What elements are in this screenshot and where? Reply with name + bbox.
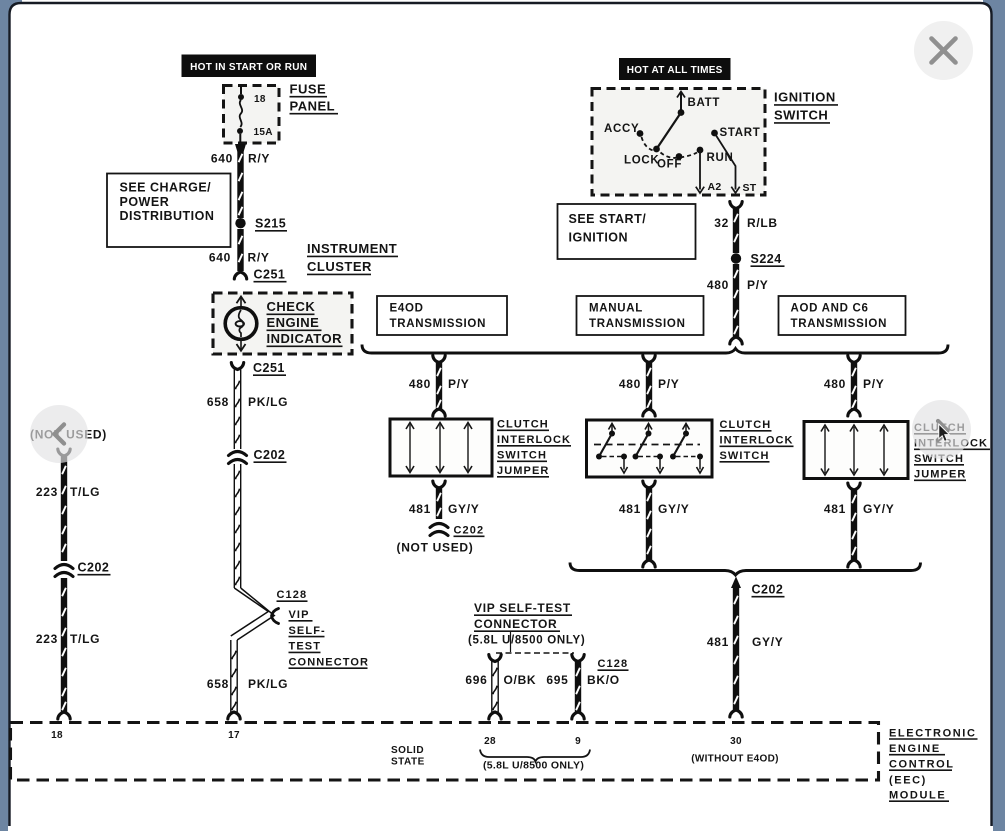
wire 481 GY/Y E4OD (not used) (433, 481, 445, 488)
svg-text:481: 481 (409, 502, 431, 516)
check engine lamp (240, 297, 242, 308)
clutch interlock switch jumper box E4OD (390, 419, 492, 476)
svg-text:BATT: BATT (688, 97, 721, 109)
svg-text:POWER: POWER (120, 195, 170, 209)
wire 480 P/Y drop MANUAL (643, 356, 655, 363)
svg-text:17: 17 (228, 730, 240, 741)
label HOT IN START OR RUN (182, 55, 317, 78)
svg-text:MANUAL: MANUAL (589, 303, 643, 315)
svg-text:480: 480 (824, 377, 846, 391)
svg-text:18: 18 (51, 730, 63, 741)
svg-text:DISTRIBUTION: DISTRIBUTION (120, 209, 215, 223)
close button (914, 21, 973, 80)
svg-text:C202: C202 (752, 583, 784, 597)
svg-text:PK/LG: PK/LG (248, 395, 288, 409)
svg-text:BK/O: BK/O (587, 673, 620, 687)
svg-text:LOCK: LOCK (624, 155, 659, 167)
svg-text:JUMPER: JUMPER (914, 469, 966, 481)
ignition START terminal (711, 130, 718, 137)
svg-text:CONNECTOR: CONNECTOR (474, 617, 557, 631)
svg-text:C251: C251 (254, 268, 286, 282)
svg-text:R/Y: R/Y (248, 251, 270, 265)
switch mechanism dashed link (594, 444, 700, 446)
svg-text:S224: S224 (751, 252, 782, 266)
svg-text:C202: C202 (454, 525, 485, 537)
svg-text:GY/Y: GY/Y (752, 635, 783, 649)
VIP self-test tap zigzag (231, 588, 268, 636)
svg-text:ST: ST (743, 182, 757, 194)
svg-text:R/Y: R/Y (248, 152, 270, 166)
wire 223 T/LG upper (61, 456, 67, 561)
svg-text:ENGINE: ENGINE (267, 315, 320, 330)
svg-text:640: 640 (209, 251, 231, 265)
svg-text:SWITCH: SWITCH (497, 450, 547, 462)
switch pole (683, 424, 690, 430)
svg-text:FUSE: FUSE (290, 82, 327, 97)
svg-text:IGNITION: IGNITION (774, 90, 836, 105)
wire 480 P/Y drop E4OD (433, 356, 445, 363)
svg-text:PK/LG: PK/LG (248, 677, 288, 691)
svg-text:SEE CHARGE/: SEE CHARGE/ (120, 181, 212, 195)
wire 658 PK/LG mid segment (233, 464, 235, 588)
clutch interlock switch jumper box AOD (804, 422, 908, 479)
svg-text:30: 30 (730, 736, 742, 747)
wire 658 PK/LG lower segment (230, 640, 232, 712)
svg-text:O/BK: O/BK (504, 673, 537, 687)
ignition switch dashed box (592, 89, 765, 196)
svg-text:A2: A2 (708, 181, 722, 193)
svg-text:(NOT USED): (NOT USED) (397, 541, 474, 555)
svg-text:SOLID: SOLID (391, 745, 424, 756)
fuse F18 15A (240, 86, 242, 94)
connector C128 on 658 wire (272, 609, 279, 624)
svg-text:658: 658 (207, 677, 229, 691)
svg-text:HOT IN START OR RUN: HOT IN START OR RUN (190, 62, 307, 73)
svg-text:695: 695 (546, 673, 568, 687)
check engine indicator dashed box (213, 293, 352, 354)
connector C251 lower (231, 363, 243, 370)
svg-text:28: 28 (484, 736, 496, 747)
svg-text:480: 480 (619, 377, 641, 391)
box MANUAL TRANSMISSION (577, 296, 704, 335)
svg-text:GY/Y: GY/Y (658, 502, 689, 516)
ignition BATT terminal (680, 93, 682, 113)
dashed detent arc ACCY to LOCK (642, 137, 654, 151)
svg-text:640: 640 (211, 152, 233, 166)
svg-text:R/LB: R/LB (747, 216, 778, 230)
wire 481 GY/Y AOD (848, 483, 860, 490)
svg-text:480: 480 (707, 278, 729, 292)
svg-text:CLUTCH: CLUTCH (497, 419, 549, 431)
ignition START to ST wire (715, 133, 736, 190)
wire 223 T/LG lower (61, 578, 67, 712)
svg-text:GY/Y: GY/Y (863, 502, 894, 516)
previous page button (30, 405, 88, 463)
svg-text:START: START (720, 127, 761, 139)
svg-text:STATE: STATE (391, 757, 425, 768)
svg-text:TRANSMISSION: TRANSMISSION (589, 318, 686, 330)
bus brace upper (362, 345, 948, 354)
wire 695 BK/O (572, 655, 584, 662)
svg-text:480: 480 (409, 377, 431, 391)
svg-text:696: 696 (465, 673, 487, 687)
connector C202 left branch (55, 565, 73, 569)
svg-text:TEST: TEST (289, 641, 322, 653)
svg-text:IGNITION: IGNITION (569, 231, 629, 245)
svg-text:CLUSTER: CLUSTER (307, 259, 372, 274)
wire 481 GY/Y MANUAL (643, 481, 655, 488)
splice S224 (731, 253, 741, 263)
svg-text:ENGINE: ENGINE (889, 743, 941, 755)
svg-text:T/LG: T/LG (70, 485, 100, 499)
svg-text:(5.8L U/8500 ONLY): (5.8L U/8500 ONLY) (468, 635, 585, 647)
svg-text:CLUTCH: CLUTCH (720, 419, 772, 431)
clutch interlock switch box MANUAL (587, 420, 713, 477)
223 wire top fork (58, 449, 70, 456)
label HOT AT ALL TIMES (619, 58, 731, 80)
svg-text:C251: C251 (253, 361, 285, 375)
bus brace lower (570, 563, 921, 576)
svg-text:C128: C128 (277, 589, 308, 601)
svg-text:CONTROL: CONTROL (889, 759, 955, 771)
svg-text:(5.8L U/8500 ONLY): (5.8L U/8500 ONLY) (483, 760, 584, 772)
EEC module dashed box (11, 723, 879, 781)
svg-text:C202: C202 (78, 561, 110, 575)
svg-text:JUMPER: JUMPER (497, 465, 549, 477)
svg-text:P/Y: P/Y (747, 278, 768, 292)
svg-text:PANEL: PANEL (290, 99, 336, 114)
ignition wiper lever (657, 113, 682, 150)
svg-text:481: 481 (707, 635, 729, 649)
switch pole (645, 424, 652, 430)
connector C202 on 658 wire (229, 452, 247, 456)
658 wire end fork at pin 17 (228, 712, 240, 719)
svg-text:SEE START/: SEE START/ (569, 212, 647, 226)
box E4OD TRANSMISSION (377, 296, 507, 335)
page backdrop left strip (0, 0, 22, 831)
svg-text:SWITCH: SWITCH (720, 450, 770, 462)
svg-text:CONNECTOR: CONNECTOR (289, 656, 370, 668)
svg-text:SELF-: SELF- (289, 625, 326, 637)
svg-text:VIP: VIP (289, 609, 310, 621)
svg-text:CHECK: CHECK (267, 299, 316, 314)
box SEE START/IGNITION (558, 204, 696, 259)
box AOD AND C6 TRANSMISSION (779, 296, 906, 335)
leader line to connector (510, 632, 512, 652)
ignition RUN terminal (697, 147, 704, 154)
ignition OFF terminal (676, 153, 683, 160)
splice S215 (235, 218, 245, 228)
svg-text:TRANSMISSION: TRANSMISSION (791, 318, 888, 330)
wire 640 R/Y fuse to C251 (235, 144, 246, 152)
junction arrow into C202 (731, 577, 741, 589)
svg-text:ELECTRONIC: ELECTRONIC (889, 727, 977, 739)
svg-text:ACCY: ACCY (604, 123, 639, 135)
svg-text:GY/Y: GY/Y (448, 502, 479, 516)
svg-text:9: 9 (575, 736, 581, 747)
svg-text:VIP SELF-TEST: VIP SELF-TEST (474, 601, 571, 615)
underbrace pins 28-9 (480, 750, 590, 762)
svg-text:481: 481 (619, 502, 641, 516)
wire 32 R/LB ignition to S224 (730, 202, 742, 209)
svg-text:AOD AND C6: AOD AND C6 (791, 303, 869, 315)
dashed detent arc LOCK-OFF-RUN (661, 153, 698, 158)
svg-text:S215: S215 (255, 217, 286, 231)
ignition ACCY terminal (637, 130, 644, 137)
next page button (912, 400, 971, 459)
wire 696 O/BK (489, 655, 501, 662)
svg-text:481: 481 (824, 502, 846, 516)
page backdrop right strip (983, 0, 1005, 831)
svg-text:INDICATOR: INDICATOR (267, 331, 343, 346)
223 wire end fork at pin 18 (58, 712, 70, 719)
svg-text:C202: C202 (254, 448, 286, 462)
connector C251 upper (234, 272, 246, 279)
mouse cursor (939, 424, 949, 441)
svg-text:18: 18 (254, 94, 266, 105)
svg-text:C128: C128 (598, 658, 629, 670)
svg-text:223: 223 (36, 485, 58, 499)
wire 480 P/Y drop AOD (848, 356, 860, 363)
box SEE CHARGE/POWER DISTRIBUTION (107, 174, 231, 248)
svg-text:(WITHOUT E4OD): (WITHOUT E4OD) (691, 754, 779, 765)
svg-text:(EEC): (EEC) (889, 775, 927, 787)
svg-text:223: 223 (36, 632, 58, 646)
svg-text:15A: 15A (254, 127, 273, 138)
svg-text:SWITCH: SWITCH (774, 108, 828, 123)
svg-text:MODULE: MODULE (889, 790, 946, 802)
svg-text:OFF: OFF (657, 159, 682, 171)
svg-text:P/Y: P/Y (448, 377, 469, 391)
switch pole (609, 424, 616, 430)
svg-text:HOT AT ALL TIMES: HOT AT ALL TIMES (627, 65, 723, 76)
fuse panel dashed box (224, 86, 280, 144)
connector dashed bar (496, 652, 574, 654)
svg-text:INTERLOCK: INTERLOCK (720, 435, 794, 447)
svg-text:P/Y: P/Y (658, 377, 679, 391)
svg-text:T/LG: T/LG (70, 632, 100, 646)
svg-text:INTERLOCK: INTERLOCK (497, 434, 571, 446)
ignition RUN to A2 wire (699, 150, 701, 190)
svg-text:32: 32 (714, 216, 729, 230)
wire 480 P/Y S224 to bus (733, 264, 739, 337)
svg-text:P/Y: P/Y (863, 377, 884, 391)
svg-text:E4OD: E4OD (390, 303, 424, 315)
wire 481 GY/Y to pin 30 (733, 586, 739, 710)
svg-text:TRANSMISSION: TRANSMISSION (390, 318, 487, 330)
wire 658 PK/LG upper segment (233, 370, 235, 450)
svg-text:658: 658 (207, 395, 229, 409)
svg-text:INSTRUMENT: INSTRUMENT (307, 241, 397, 256)
